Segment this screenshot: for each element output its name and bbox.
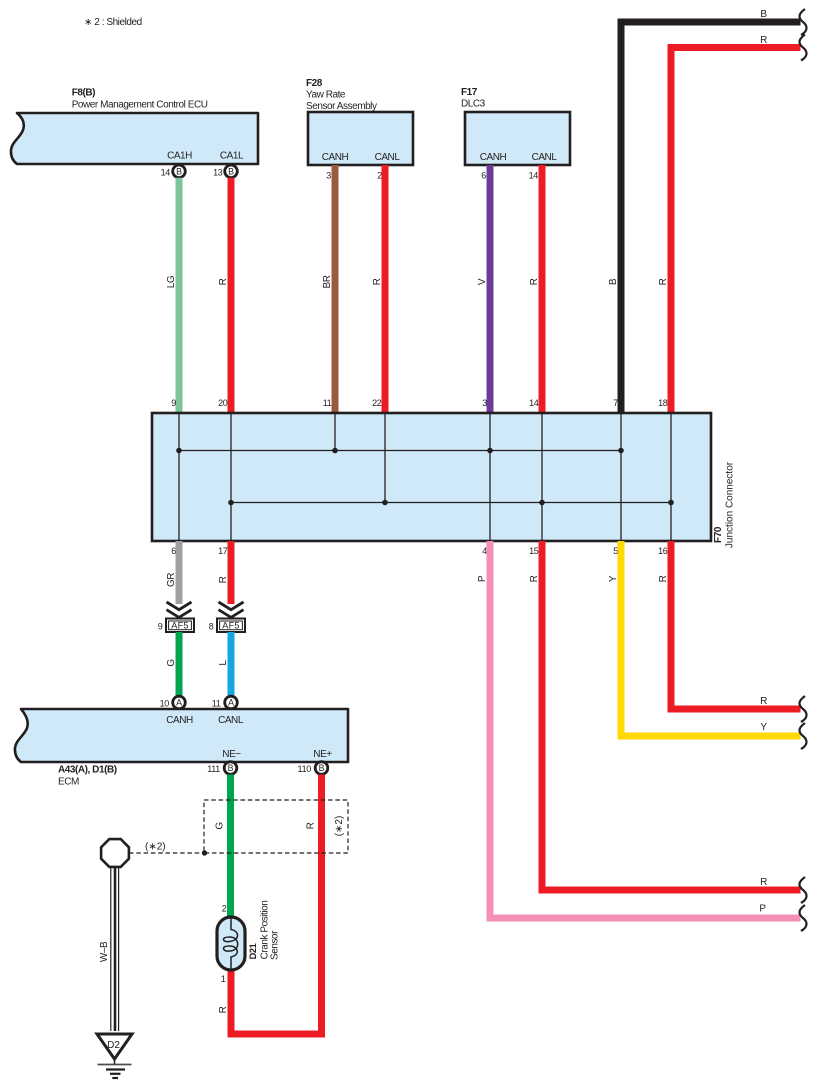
svg-text:CANH: CANH <box>480 152 507 163</box>
F70 CANH bus upper <box>179 450 621 452</box>
F70 CANL bus lower <box>231 502 671 504</box>
svg-text:AF5: AF5 <box>171 621 188 631</box>
svg-text:20: 20 <box>218 398 228 408</box>
wire B break squiggle <box>799 9 806 35</box>
svg-text:A43(A), D1(B): A43(A), D1(B) <box>58 765 117 776</box>
svg-text:11: 11 <box>323 398 332 408</box>
svg-text:B: B <box>228 763 234 773</box>
svg-text:ECM: ECM <box>58 777 79 788</box>
ECM pin 111 circle B <box>207 762 237 775</box>
wire G from ECM pin 111 to D21 pin 2 <box>215 775 231 918</box>
svg-text:13: 13 <box>213 168 223 178</box>
junction node dot 9 <box>176 448 182 454</box>
svg-text:CANH: CANH <box>322 152 349 163</box>
svg-text:R: R <box>218 576 229 583</box>
svg-text:LG: LG <box>166 275 177 288</box>
svg-text:3: 3 <box>326 171 331 181</box>
svg-text:D21: D21 <box>248 943 258 959</box>
svg-text:B: B <box>319 763 325 773</box>
F70 label rotated <box>713 461 736 548</box>
svg-text:14: 14 <box>529 398 539 408</box>
F70 internal vertical pin 18 to 16 <box>670 413 672 541</box>
svg-text:L: L <box>218 660 229 666</box>
crank position sensor D21 <box>217 917 245 970</box>
svg-text:DLC3: DLC3 <box>461 99 486 110</box>
F28 title <box>306 78 377 112</box>
F70 internal vertical pin 22 stub <box>384 413 386 503</box>
svg-text:10: 10 <box>160 699 170 709</box>
svg-text:15: 15 <box>529 546 539 556</box>
shield arrow chevrons GR <box>167 602 192 617</box>
svg-text:BR: BR <box>322 275 333 288</box>
svg-text:R: R <box>218 278 229 285</box>
svg-text:F70: F70 <box>713 526 724 543</box>
ECM pin 11 circle A <box>212 696 238 709</box>
svg-text:R: R <box>306 822 317 829</box>
note *2 Shielded <box>84 17 142 28</box>
svg-text:F8(B): F8(B) <box>72 88 95 99</box>
Yaw Rate Sensor F28 box <box>308 112 413 165</box>
junction connector F70 box <box>152 413 711 541</box>
junction node dot 3 <box>487 448 493 454</box>
svg-text:R: R <box>760 696 767 707</box>
junction node dot 7 <box>618 448 624 454</box>
F70 internal vertical pin 3 to 4 <box>489 413 491 541</box>
connector AF5 pin 9 <box>158 619 194 633</box>
F70 internal vertical pin 7 to 5 <box>620 413 622 541</box>
svg-text:B: B <box>176 167 182 177</box>
wire R from ECM pin 110 to D21 pin 1 <box>218 775 322 1035</box>
D21 coil <box>223 918 237 971</box>
ECM pin 110 circle B <box>298 762 328 775</box>
ECM pin 10 circle A <box>160 696 186 709</box>
junction node dot 20 <box>228 500 234 506</box>
wire GR from junction pin 6 to AF5 <box>166 541 179 604</box>
svg-text:CA1L: CA1L <box>220 151 244 162</box>
junction node dot 22 <box>382 500 388 506</box>
svg-text:P: P <box>477 575 488 582</box>
svg-text:3: 3 <box>482 398 487 408</box>
F70 top pin numbers <box>171 398 668 408</box>
svg-text:111: 111 <box>207 764 220 774</box>
svg-text:Y: Y <box>760 722 767 733</box>
svg-text:11: 11 <box>212 699 221 709</box>
dashed shield link <box>129 842 203 854</box>
svg-text:Y: Y <box>608 575 619 582</box>
svg-text:7: 7 <box>613 398 618 408</box>
svg-text:CA1H: CA1H <box>167 151 192 162</box>
wire R from F17 pin14 to junction pin 14 <box>529 165 542 413</box>
wire R red from right edge to junction pin 18 <box>671 48 801 414</box>
svg-text:(∗2): (∗2) <box>145 842 166 853</box>
ground bars <box>98 1059 132 1078</box>
svg-text:Yaw Rate: Yaw Rate <box>306 90 346 101</box>
wire R from F8 pin13 to junction pin 20 <box>218 178 231 413</box>
svg-text:NE+: NE+ <box>313 749 332 760</box>
svg-text:GR: GR <box>166 573 177 587</box>
svg-text:Junction Connector: Junction Connector <box>725 461 736 548</box>
ECM title <box>58 765 117 788</box>
wire L from AF5 to ECM pin 11 <box>218 632 231 696</box>
wire R from junction pin 15 to right edge <box>529 541 801 890</box>
wire P break squiggle <box>799 905 806 931</box>
svg-text:B: B <box>228 167 234 177</box>
svg-text:9: 9 <box>171 398 176 408</box>
ground triangle D2 <box>97 1034 132 1059</box>
shield node dot <box>202 850 207 855</box>
F70 internal vertical pin 11 stub <box>334 413 336 451</box>
svg-text:R: R <box>658 575 669 582</box>
shield octagon <box>101 839 129 867</box>
svg-text:8: 8 <box>209 622 214 632</box>
svg-text:R: R <box>372 278 383 285</box>
junction node dot 11 <box>332 448 338 454</box>
svg-text:B: B <box>608 278 619 285</box>
svg-text:22: 22 <box>372 398 382 408</box>
wire Y from junction pin 5 to right edge <box>608 541 801 736</box>
junction node dot 14 <box>539 500 545 506</box>
ECU pin 13 circle B <box>213 165 237 178</box>
svg-text:(∗2): (∗2) <box>334 816 345 837</box>
connector AF5 pin 8 <box>209 619 245 633</box>
svg-text:R: R <box>529 278 540 285</box>
svg-text:F28: F28 <box>306 78 323 89</box>
wire R break squiggle <box>799 696 806 722</box>
svg-text:F17: F17 <box>461 87 478 98</box>
svg-text:17: 17 <box>218 546 228 556</box>
svg-text:R: R <box>658 278 669 285</box>
svg-text:AF5: AF5 <box>222 621 239 631</box>
svg-text:R: R <box>218 1006 229 1013</box>
wire R break squiggle <box>799 35 806 61</box>
svg-text:110: 110 <box>298 764 312 774</box>
svg-text:R: R <box>760 877 767 888</box>
wire G from AF5 to ECM pin 10 <box>166 632 179 696</box>
svg-text:R: R <box>529 575 540 582</box>
wire R from junction pin 17 to AF5 <box>218 541 231 604</box>
F70 internal vertical pin 20 to 17 <box>230 413 232 541</box>
svg-text:D2: D2 <box>107 1040 120 1051</box>
svg-text:1: 1 <box>221 974 226 984</box>
wire R from junction pin 16 to right edge <box>658 541 801 709</box>
svg-text:R: R <box>760 35 767 46</box>
svg-text:Sensor Assembly: Sensor Assembly <box>306 101 377 112</box>
svg-text:A: A <box>176 698 182 708</box>
svg-text:Sensor: Sensor <box>270 930 281 960</box>
wire R break squiggle <box>799 877 806 903</box>
svg-text:B: B <box>760 9 767 20</box>
svg-text:CANH: CANH <box>166 715 193 726</box>
wire P from junction pin 4 to right edge <box>477 541 801 918</box>
svg-text:∗ 2 : Shielded: ∗ 2 : Shielded <box>84 17 142 28</box>
svg-text:14: 14 <box>529 171 539 181</box>
svg-text:A: A <box>228 698 234 708</box>
wire Y break squiggle <box>799 723 806 749</box>
wire LG from F8 pin14 to junction pin 9 <box>166 178 179 413</box>
svg-text:16: 16 <box>658 546 668 556</box>
wire B black from right edge to junction pin 7 <box>621 22 801 413</box>
shield drain wire W-B <box>99 867 119 1031</box>
shielded dashed box <box>204 800 348 853</box>
svg-text:9: 9 <box>158 622 163 632</box>
svg-text:G: G <box>166 659 177 667</box>
svg-text:G: G <box>215 822 226 830</box>
svg-text:14: 14 <box>161 168 171 178</box>
ECU F8(B) title <box>72 88 208 111</box>
wire R from F28 pin2 to junction pin 22 <box>372 165 385 413</box>
junction node dot 18 <box>668 500 674 506</box>
F17 title <box>461 87 486 110</box>
wire BR from F28 pin3 to junction pin 11 <box>322 165 335 413</box>
svg-text:V: V <box>477 278 488 285</box>
F70 internal vertical pin 14 to 15 <box>541 413 543 541</box>
F70 internal vertical pin 9 to 6 <box>178 413 180 541</box>
svg-text:18: 18 <box>658 398 668 408</box>
svg-text:2: 2 <box>222 904 227 914</box>
wire V from F17 pin6 to junction pin 3 <box>477 165 490 413</box>
svg-text:6: 6 <box>481 171 486 181</box>
svg-text:CANL: CANL <box>375 152 401 163</box>
svg-text:CANL: CANL <box>532 152 558 163</box>
shield arrow chevrons R <box>219 602 244 617</box>
svg-text:Power Management Control ECU: Power Management Control ECU <box>72 100 208 111</box>
svg-text:W–B: W–B <box>99 941 110 962</box>
F70 bottom pin numbers <box>171 546 668 556</box>
svg-text:NE−: NE− <box>222 749 241 760</box>
DLC3 F17 box <box>465 112 570 165</box>
svg-text:CANL: CANL <box>218 715 244 726</box>
ECU F8(B) box <box>11 113 258 164</box>
svg-text:P: P <box>759 904 766 915</box>
D21 title rotated <box>248 901 281 960</box>
ECM A43 box <box>15 709 348 762</box>
ECU pin 14 circle B <box>161 165 186 178</box>
